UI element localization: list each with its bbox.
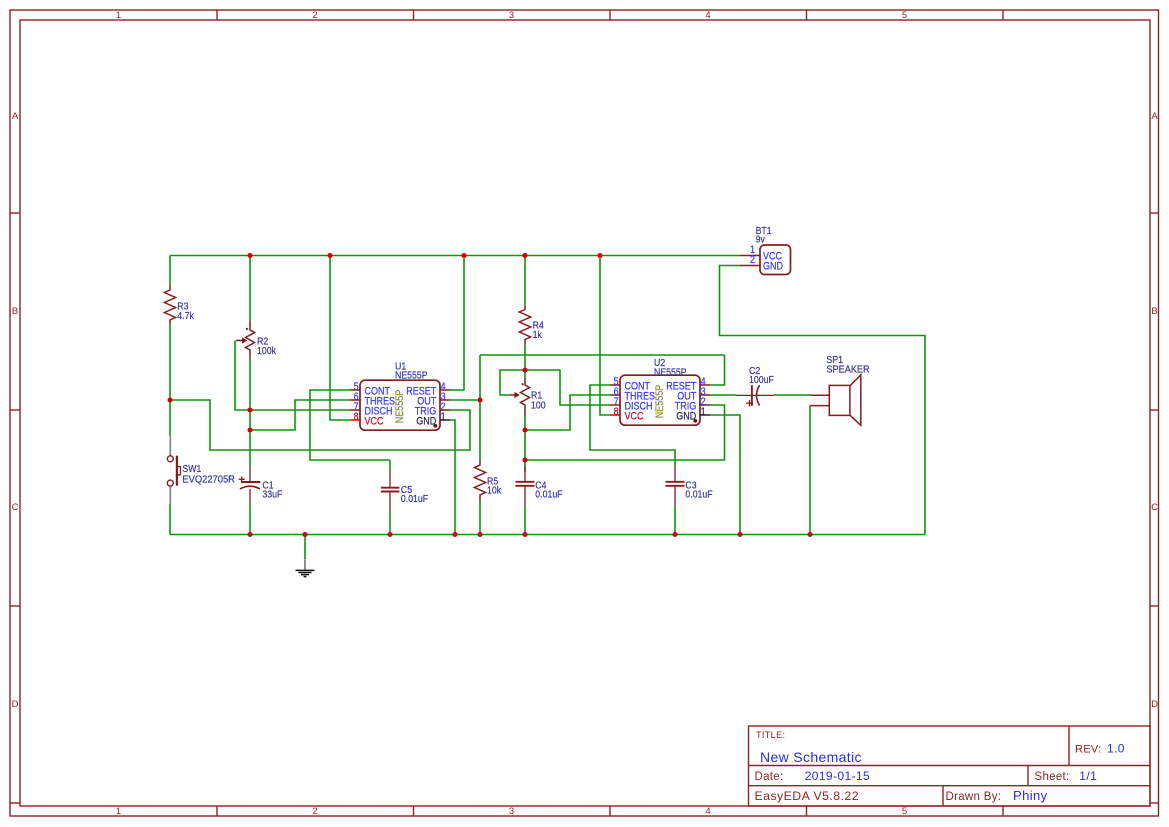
wire y355 U1 OUT to U2 RESET	[480, 354, 725, 356]
junction VCC-R4	[522, 253, 527, 258]
wire U1 pin5 to C5	[310, 390, 390, 460]
svg-text:GND: GND	[763, 261, 783, 273]
wire node460 to U2 pin2	[525, 405, 725, 460]
speaker SP1 body	[810, 375, 861, 426]
op-amp U1 NE555P body	[350, 380, 450, 430]
svg-text:NE555P: NE555P	[394, 389, 406, 423]
svg-text:1: 1	[441, 411, 446, 423]
wire U1 pin1 GND to rail	[450, 420, 455, 535]
svg-text:TITLE:: TITLE:	[756, 730, 785, 740]
junction R1-U2pin6	[522, 427, 527, 432]
TITLE BLOCK	[749, 726, 1151, 806]
svg-text:0.01uF: 0.01uF	[535, 489, 562, 501]
wire R5 to rail	[479, 500, 481, 535]
svg-text:NE555P: NE555P	[395, 370, 428, 382]
svg-text:C: C	[12, 502, 19, 513]
svg-text:Sheet:: Sheet:	[1035, 771, 1070, 783]
op-amp U2 NE555P body	[610, 375, 710, 425]
junction rail-C1	[247, 532, 252, 537]
capacitor C5	[381, 471, 400, 512]
svg-text:100uF: 100uF	[749, 374, 774, 386]
svg-text:1: 1	[116, 806, 121, 817]
junction VCC-U1pin8	[327, 253, 332, 258]
wire left vertical R3 to SW1	[169, 325, 171, 436]
svg-text:VCC: VCC	[365, 416, 384, 428]
junction rail-R5	[477, 532, 482, 537]
svg-text:New Schematic: New Schematic	[760, 749, 862, 765]
wire R1 to U2 pin6	[525, 395, 610, 430]
wire R1 top to U2 pin7	[525, 370, 610, 405]
wire U2 pin5 to C3	[590, 385, 675, 466]
wire C5 to rail	[389, 511, 391, 535]
switch SW1	[167, 436, 180, 505]
svg-text:REV:: REV:	[1075, 744, 1101, 756]
wire R4 to R1	[524, 345, 526, 378]
wire U2 pin1 to rail	[710, 415, 740, 535]
wire left vertical above R3	[169, 256, 171, 287]
wire C4 to rail	[524, 506, 526, 535]
svg-text:1/1: 1/1	[1079, 769, 1097, 783]
svg-text:0.01uF: 0.01uF	[685, 489, 712, 501]
svg-text:2: 2	[750, 254, 755, 266]
svg-text:3: 3	[509, 10, 514, 21]
wire U2 pin4 riser	[710, 355, 725, 385]
wire GND rail	[170, 534, 925, 536]
svg-text:10k: 10k	[487, 485, 501, 497]
wire R2 top	[249, 256, 251, 322]
wire R1 bottom node	[524, 416, 526, 473]
wire C5 top lead	[389, 460, 391, 471]
svg-text:D: D	[12, 699, 19, 710]
junction node A left	[167, 397, 172, 402]
junction rail-C4	[522, 532, 527, 537]
svg-text:100k: 100k	[257, 345, 276, 357]
svg-text:1: 1	[116, 10, 121, 21]
svg-text:5: 5	[902, 806, 907, 817]
svg-text:0.01uF: 0.01uF	[401, 493, 428, 505]
junction U1OUT-R5	[477, 397, 482, 402]
capacitor C1 polarized	[239, 466, 261, 505]
potentiometer R2	[236, 321, 255, 359]
junction rail-C5	[387, 532, 392, 537]
svg-text:9v: 9v	[756, 234, 765, 246]
wire C2 to SP1	[774, 394, 811, 396]
junction VCC-R2	[247, 253, 252, 258]
junction dots	[167, 253, 812, 537]
junction VCC-U2pin8	[597, 253, 602, 258]
capacitor C3	[666, 466, 685, 506]
svg-text:D: D	[1151, 699, 1158, 710]
wire C1 to rail	[249, 505, 251, 535]
resistor R5	[474, 461, 485, 500]
resistor R3	[164, 286, 175, 325]
svg-text:1: 1	[701, 406, 706, 418]
svg-text:EVQ22705R: EVQ22705R	[182, 474, 235, 486]
wire SW1 to GND rail	[169, 505, 171, 535]
svg-text:5: 5	[902, 10, 907, 21]
svg-text:GND: GND	[676, 411, 696, 423]
SCHEMATIC	[170, 256, 925, 560]
wire ground stem	[304, 535, 306, 560]
svg-text:A: A	[12, 111, 19, 122]
svg-text:8: 8	[354, 411, 359, 423]
svg-text:EasyEDA V5.8.22: EasyEDA V5.8.22	[755, 789, 860, 803]
wire R1 wiper loop	[500, 370, 525, 395]
svg-text:B: B	[12, 306, 18, 317]
svg-text:A: A	[1151, 111, 1158, 122]
wire VCC to U2 pin8	[600, 256, 610, 416]
svg-text:NE555P: NE555P	[654, 384, 666, 418]
junction R4-R1	[522, 367, 527, 372]
capacitor C2 polarized	[736, 385, 774, 406]
wire C3 to rail	[674, 506, 676, 535]
junction rail-ground	[302, 532, 307, 537]
wire U1 pin7 to R2 node	[250, 409, 350, 411]
junction VCC-U1pin4	[461, 253, 466, 258]
svg-text:B: B	[1151, 306, 1157, 317]
junction rail-U1gnd	[452, 532, 457, 537]
capacitor C4	[516, 466, 535, 506]
wire R2 wiper to DISCH node	[235, 341, 250, 411]
svg-text:C: C	[1151, 502, 1158, 513]
svg-text:2019-01-15: 2019-01-15	[805, 769, 870, 783]
svg-text:SPEAKER: SPEAKER	[826, 364, 869, 376]
svg-text:2: 2	[312, 806, 317, 817]
wire VCC to U1 pin4	[450, 256, 464, 391]
wire VCC to U1 pin8	[330, 256, 350, 421]
ground	[296, 559, 315, 576]
wire BT1 pin2 down	[720, 266, 926, 535]
wire node x480 vertical	[479, 355, 481, 461]
svg-text:4.7k: 4.7k	[177, 310, 194, 322]
potentiometer R1	[511, 378, 530, 416]
svg-text:4: 4	[705, 806, 710, 817]
svg-text:8: 8	[614, 406, 619, 418]
svg-text:2: 2	[312, 10, 317, 21]
svg-text:Phiny: Phiny	[1013, 788, 1048, 803]
svg-text:1.0: 1.0	[1107, 742, 1125, 756]
svg-text:100: 100	[531, 400, 546, 412]
wire U1 pin6 jog	[250, 400, 350, 430]
svg-text:1k: 1k	[533, 329, 542, 341]
battery BT1 body	[740, 245, 791, 275]
svg-text:Date:: Date:	[755, 771, 784, 783]
wire R2 bottom to C1	[249, 359, 251, 467]
wire VCC rail	[170, 255, 740, 257]
svg-text:3: 3	[509, 806, 514, 817]
svg-text:NE555P: NE555P	[654, 367, 687, 379]
junction rail-SP1	[807, 532, 812, 537]
junction THRES-C1	[247, 427, 252, 432]
wire VCC to R4	[524, 256, 526, 306]
wire U1 pin2 TRIG long route	[170, 400, 470, 450]
wire U2 pin3 to C2	[710, 394, 736, 396]
wire U1 pin3 to R5 node	[450, 399, 480, 401]
junction rail-C3	[672, 532, 677, 537]
svg-text:Drawn By:: Drawn By:	[946, 791, 1002, 803]
resistor R4	[519, 305, 530, 345]
wire SP1 bottom to rail	[809, 406, 811, 535]
svg-text:GND: GND	[416, 416, 436, 428]
junction rail-U2gnd	[737, 532, 742, 537]
svg-text:VCC: VCC	[625, 411, 644, 423]
svg-text:4: 4	[705, 10, 710, 21]
junction R1-C4-U2pin2	[522, 457, 527, 462]
svg-text:33uF: 33uF	[262, 489, 282, 501]
junction R2-DISCH	[247, 407, 252, 412]
